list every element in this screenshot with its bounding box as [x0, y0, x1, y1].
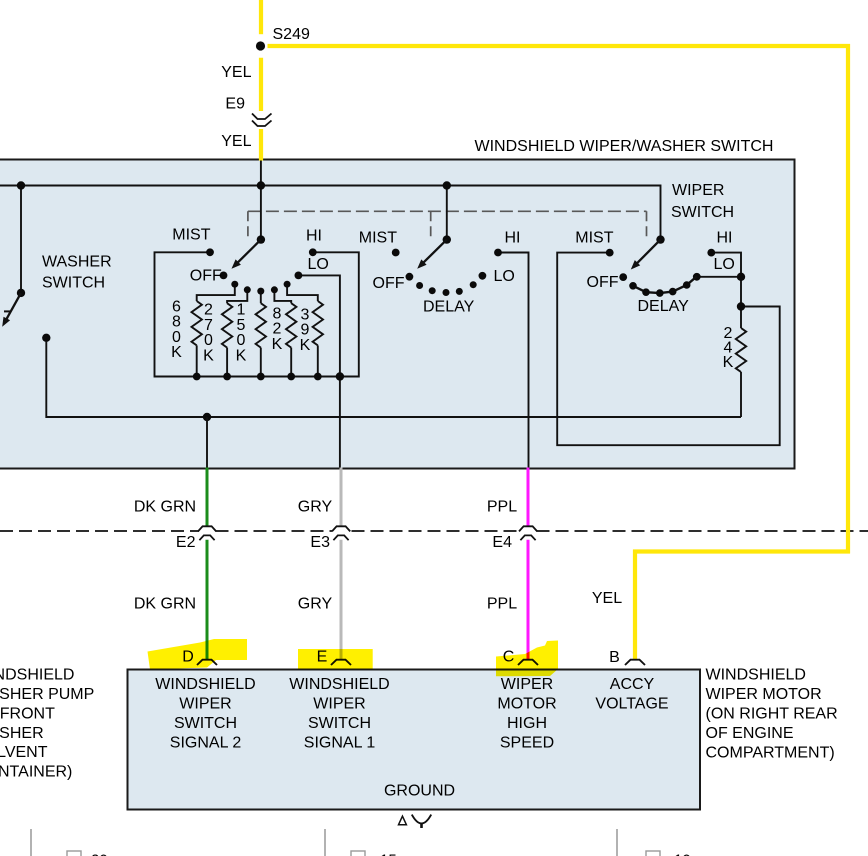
svg-text:MIST: MIST: [575, 230, 613, 247]
svg-text:WASHER: WASHER: [42, 254, 112, 271]
svg-text:DK GRN: DK GRN: [134, 499, 196, 516]
svg-text:SWITCH: SWITCH: [42, 275, 105, 292]
svg-text:WIPER MOTOR: WIPER MOTOR: [706, 686, 822, 703]
svg-text:GRY: GRY: [298, 596, 333, 613]
dashed harness separator line: [0, 530, 868, 532]
node: washer switch pivot: [17, 289, 25, 297]
svg-text:GROUND: GROUND: [384, 782, 455, 799]
wire YEL from S249 to connector E9: [259, 58, 263, 111]
wiper motor connector block (lower box): [128, 670, 701, 810]
resistor 680K: [192, 301, 202, 345]
wire: delay tap 5 to resistor 39K: [287, 284, 318, 301]
page icon 2 with fuse number 15: [351, 851, 365, 856]
svg-text:SOLVENT: SOLVENT: [0, 744, 48, 761]
wire: signal 2 drop to block edge (becomes DK GRN): [206, 417, 208, 469]
svg-text:HI: HI: [717, 230, 733, 247]
svg-text:SWITCH: SWITCH: [671, 204, 734, 221]
wire YEL right margin vertical run: [846, 44, 850, 554]
svg-text:LO: LO: [494, 268, 515, 285]
wire PPL wiper motor high speed: [527, 468, 530, 526]
connector E3 (in-line): [332, 526, 350, 531]
delay contacts switch 2: [416, 282, 423, 289]
switch 1 lever (arrow to OFF): [236, 240, 261, 265]
svg-text:SWITCH: SWITCH: [308, 715, 371, 732]
svg-text:(IN FRONT: (IN FRONT: [0, 705, 55, 722]
contact MIST switch 2: [392, 249, 400, 257]
delay contacts switch 1: [231, 281, 238, 288]
connector pin D: [197, 660, 217, 665]
svg-text:DELAY: DELAY: [638, 298, 690, 315]
washer switch lever tick: [4, 310, 11, 312]
resistor 150K: [256, 303, 266, 347]
svg-text:SWITCH: SWITCH: [174, 715, 237, 732]
svg-text:ACCY: ACCY: [610, 676, 655, 693]
splice S249: [256, 41, 265, 50]
svg-text:WINDSHIELD: WINDSHIELD: [706, 667, 806, 684]
svg-text:K: K: [236, 347, 247, 364]
svg-text:CONTAINER): CONTAINER): [0, 764, 72, 781]
svg-text:YEL: YEL: [221, 64, 251, 81]
node: washer switch output contact: [42, 334, 50, 342]
delay contact arc switch 3 (connected): [633, 276, 697, 293]
contact HI switch 1: [309, 248, 317, 256]
dashed link drop to wiper switch 3 lever: [646, 211, 648, 241]
contact HI switch 2: [494, 249, 502, 257]
svg-text:PPL: PPL: [487, 596, 517, 613]
wire: delay tap 2 to resistor 270K: [227, 290, 247, 303]
svg-text:E4: E4: [492, 534, 512, 551]
resistor 82K: [286, 303, 296, 347]
contact MIST switch 3: [606, 249, 614, 257]
next-section divider ticks: [30, 829, 32, 856]
highlighter mark over connector E: [298, 649, 373, 669]
wire: main supply bus with corner down to switch 3 pivot: [0, 186, 661, 240]
node: junction to windshield wiper switch signal 2 (DK GRN): [203, 413, 211, 421]
dashed link drop to wiper switch 1 lever: [247, 211, 249, 241]
wire: switch 2 pivot feed: [446, 186, 448, 240]
svg-text:WIPER: WIPER: [179, 696, 231, 713]
wire: delay tap 4 to resistor 82K: [274, 290, 291, 303]
node: switch 3 LO/HI junction: [737, 273, 745, 281]
delay contacts switch 3: [629, 282, 637, 290]
svg-text:20: 20: [91, 852, 108, 856]
svg-text:10: 10: [674, 852, 691, 856]
highlighter mark over connector C: [496, 641, 558, 677]
svg-text:MIST: MIST: [359, 230, 397, 247]
wire DK GRN windshield wiper switch signal 2: [206, 468, 209, 526]
svg-text:K: K: [300, 337, 311, 354]
svg-text:WIPER: WIPER: [501, 676, 553, 693]
svg-text:15: 15: [380, 852, 397, 856]
node: switch 3 resistor-top junction: [737, 302, 745, 310]
node: switch 1 pivot: [257, 235, 265, 243]
svg-text:WASHER PUMP: WASHER PUMP: [0, 686, 94, 703]
svg-text:HI: HI: [306, 227, 322, 244]
node: bus tap washer switch: [17, 181, 25, 189]
wire YEL lower horizontal run to accy voltage drop: [633, 549, 850, 553]
wire: delay tap 1 to resistor 680K: [197, 284, 235, 301]
connector E9 (in-line): [252, 114, 272, 120]
svg-text:LO: LO: [714, 256, 735, 273]
svg-text:WINDSHIELD: WINDSHIELD: [0, 667, 74, 684]
ground symbol below connector block: [399, 816, 407, 825]
svg-text:COMPARTMENT): COMPARTMENT): [706, 745, 835, 762]
node: switch 3 pivot: [656, 235, 664, 243]
svg-text:WIPER: WIPER: [313, 696, 365, 713]
contact OFF switch 1: [220, 272, 228, 280]
svg-text:WASHER: WASHER: [0, 725, 44, 742]
contact MIST switch 1: [206, 248, 214, 256]
switch 2 lever (arrow to OFF): [421, 240, 447, 265]
node: bus tap switch 1: [257, 181, 265, 189]
wire: switch 1 output column to block edge (becomes GRY): [339, 377, 341, 469]
node: bus tap switch 2: [443, 181, 451, 189]
wire: switch 1 pivot feed: [260, 186, 262, 240]
svg-text:K: K: [203, 347, 214, 364]
svg-text:E3: E3: [310, 534, 330, 551]
svg-text:MOTOR: MOTOR: [497, 696, 556, 713]
svg-text:K: K: [723, 354, 734, 371]
windshield wiper/washer switch block (outline box): [0, 160, 795, 469]
svg-text:DELAY: DELAY: [423, 299, 475, 316]
switch 1 contact frame: MIST leg, left side, bottom bus, right side to HI: [155, 252, 359, 376]
dashed link drop to wiper switch 2 lever: [430, 211, 432, 241]
connector pin B: [625, 660, 645, 665]
svg-text:YEL: YEL: [592, 590, 622, 607]
washer switch lever (arrow): [5, 293, 21, 322]
connector E4 (in-line): [519, 526, 537, 531]
wire: switch 3 LO contact to junction: [697, 276, 741, 278]
svg-text:WINDSHIELD: WINDSHIELD: [155, 676, 255, 693]
contact OFF switch 2: [406, 273, 414, 281]
svg-text:OF ENGINE: OF ENGINE: [706, 725, 794, 742]
svg-text:VOLTAGE: VOLTAGE: [595, 696, 668, 713]
wire YEL drop to connector B (ACCY VOLTAGE): [633, 550, 637, 660]
switch 3 frame: MIST contact loop to resistor node: [557, 253, 780, 446]
svg-text:WINDSHIELD WIPER/WASHER SWITCH: WINDSHIELD WIPER/WASHER SWITCH: [475, 138, 774, 155]
resistor bus junctions switch 1: [193, 373, 201, 381]
svg-text:K: K: [272, 336, 283, 353]
wire: yellow feed continuation inside block: [260, 161, 262, 186]
svg-text:K: K: [171, 344, 182, 361]
contact LO switch 1: [295, 272, 303, 280]
svg-text:YEL: YEL: [221, 133, 251, 150]
svg-text:SPEED: SPEED: [500, 735, 554, 752]
highlighter mark over connector D: [148, 639, 248, 670]
dashed mechanical link bar between switch levers: [248, 210, 647, 212]
wire YEL vertical from top edge to splice S249: [259, 0, 263, 34]
svg-text:PPL: PPL: [487, 499, 517, 516]
svg-text:S249: S249: [273, 26, 310, 43]
svg-text:GRY: GRY: [298, 499, 333, 516]
svg-text:HIGH: HIGH: [507, 715, 547, 732]
svg-text:SIGNAL 2: SIGNAL 2: [170, 735, 242, 752]
resistor 24K: [736, 328, 746, 372]
node: switch 1 output junction (GRY): [336, 372, 344, 380]
contact LO switch 2: [479, 272, 487, 280]
node: switch 2 pivot: [443, 235, 451, 243]
page icon 1 with fuse number 20: [67, 851, 81, 856]
resistor 39K: [313, 301, 323, 345]
svg-text:MIST: MIST: [172, 226, 210, 243]
wire: delay tap 3 to resistor 150K: [260, 291, 262, 303]
wire YEL horizontal from S249 to right margin: [268, 44, 851, 48]
svg-text:DK GRN: DK GRN: [134, 596, 196, 613]
svg-text:OFF: OFF: [373, 275, 405, 292]
connector pin E: [331, 660, 351, 665]
wire: washer switch feed drop: [20, 186, 22, 293]
svg-text:WINDSHIELD: WINDSHIELD: [289, 676, 389, 693]
page icon 3 with fuse number 10: [646, 851, 660, 856]
wire: switch 2 HI contact to output (becomes PPL): [498, 253, 529, 469]
svg-text:(ON RIGHT REAR: (ON RIGHT REAR: [706, 706, 838, 723]
wire YEL from connector E9 into switch block: [259, 129, 263, 161]
svg-text:OFF: OFF: [190, 268, 222, 285]
wire GRY windshield wiper switch signal 1: [340, 468, 343, 526]
switch 3 lever (arrow to OFF): [635, 240, 661, 266]
connector E2 (in-line): [198, 526, 216, 531]
wire: switch 3 HI contact to LO junction and resistor 24K: [711, 253, 741, 328]
svg-text:SIGNAL 1: SIGNAL 1: [304, 735, 376, 752]
connector pin C: [518, 660, 538, 665]
wire: switch 1 LO contact to output column: [298, 275, 340, 376]
resistor 270K: [222, 303, 232, 347]
svg-text:B: B: [609, 649, 620, 666]
svg-text:WIPER: WIPER: [672, 182, 724, 199]
contact HI switch 3: [707, 249, 715, 257]
svg-text:LO: LO: [308, 256, 329, 273]
svg-text:OFF: OFF: [587, 274, 619, 291]
contact OFF switch 3: [619, 273, 627, 281]
svg-text:E2: E2: [176, 534, 196, 551]
svg-text:E9: E9: [225, 95, 245, 112]
contact LO switch 3: [693, 273, 701, 281]
wire: washer switch output down and right to ground bus: [46, 341, 741, 417]
svg-text:HI: HI: [505, 230, 521, 247]
